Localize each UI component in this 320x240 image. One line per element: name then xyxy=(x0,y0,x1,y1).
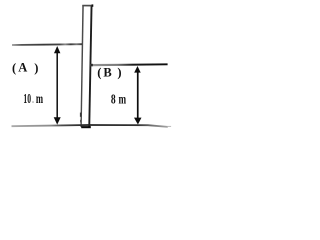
svg-text:): ) xyxy=(117,66,121,80)
svg-text:(: ( xyxy=(12,61,16,75)
svg-text:m: m xyxy=(36,91,44,106)
svg-text:): ) xyxy=(34,61,38,75)
svg-text:10: 10 xyxy=(23,91,31,106)
svg-text:m: m xyxy=(119,91,127,106)
svg-text:A: A xyxy=(18,61,27,75)
svg-text:8: 8 xyxy=(111,91,116,106)
svg-text:(: ( xyxy=(97,66,101,80)
svg-text:B: B xyxy=(103,65,111,79)
